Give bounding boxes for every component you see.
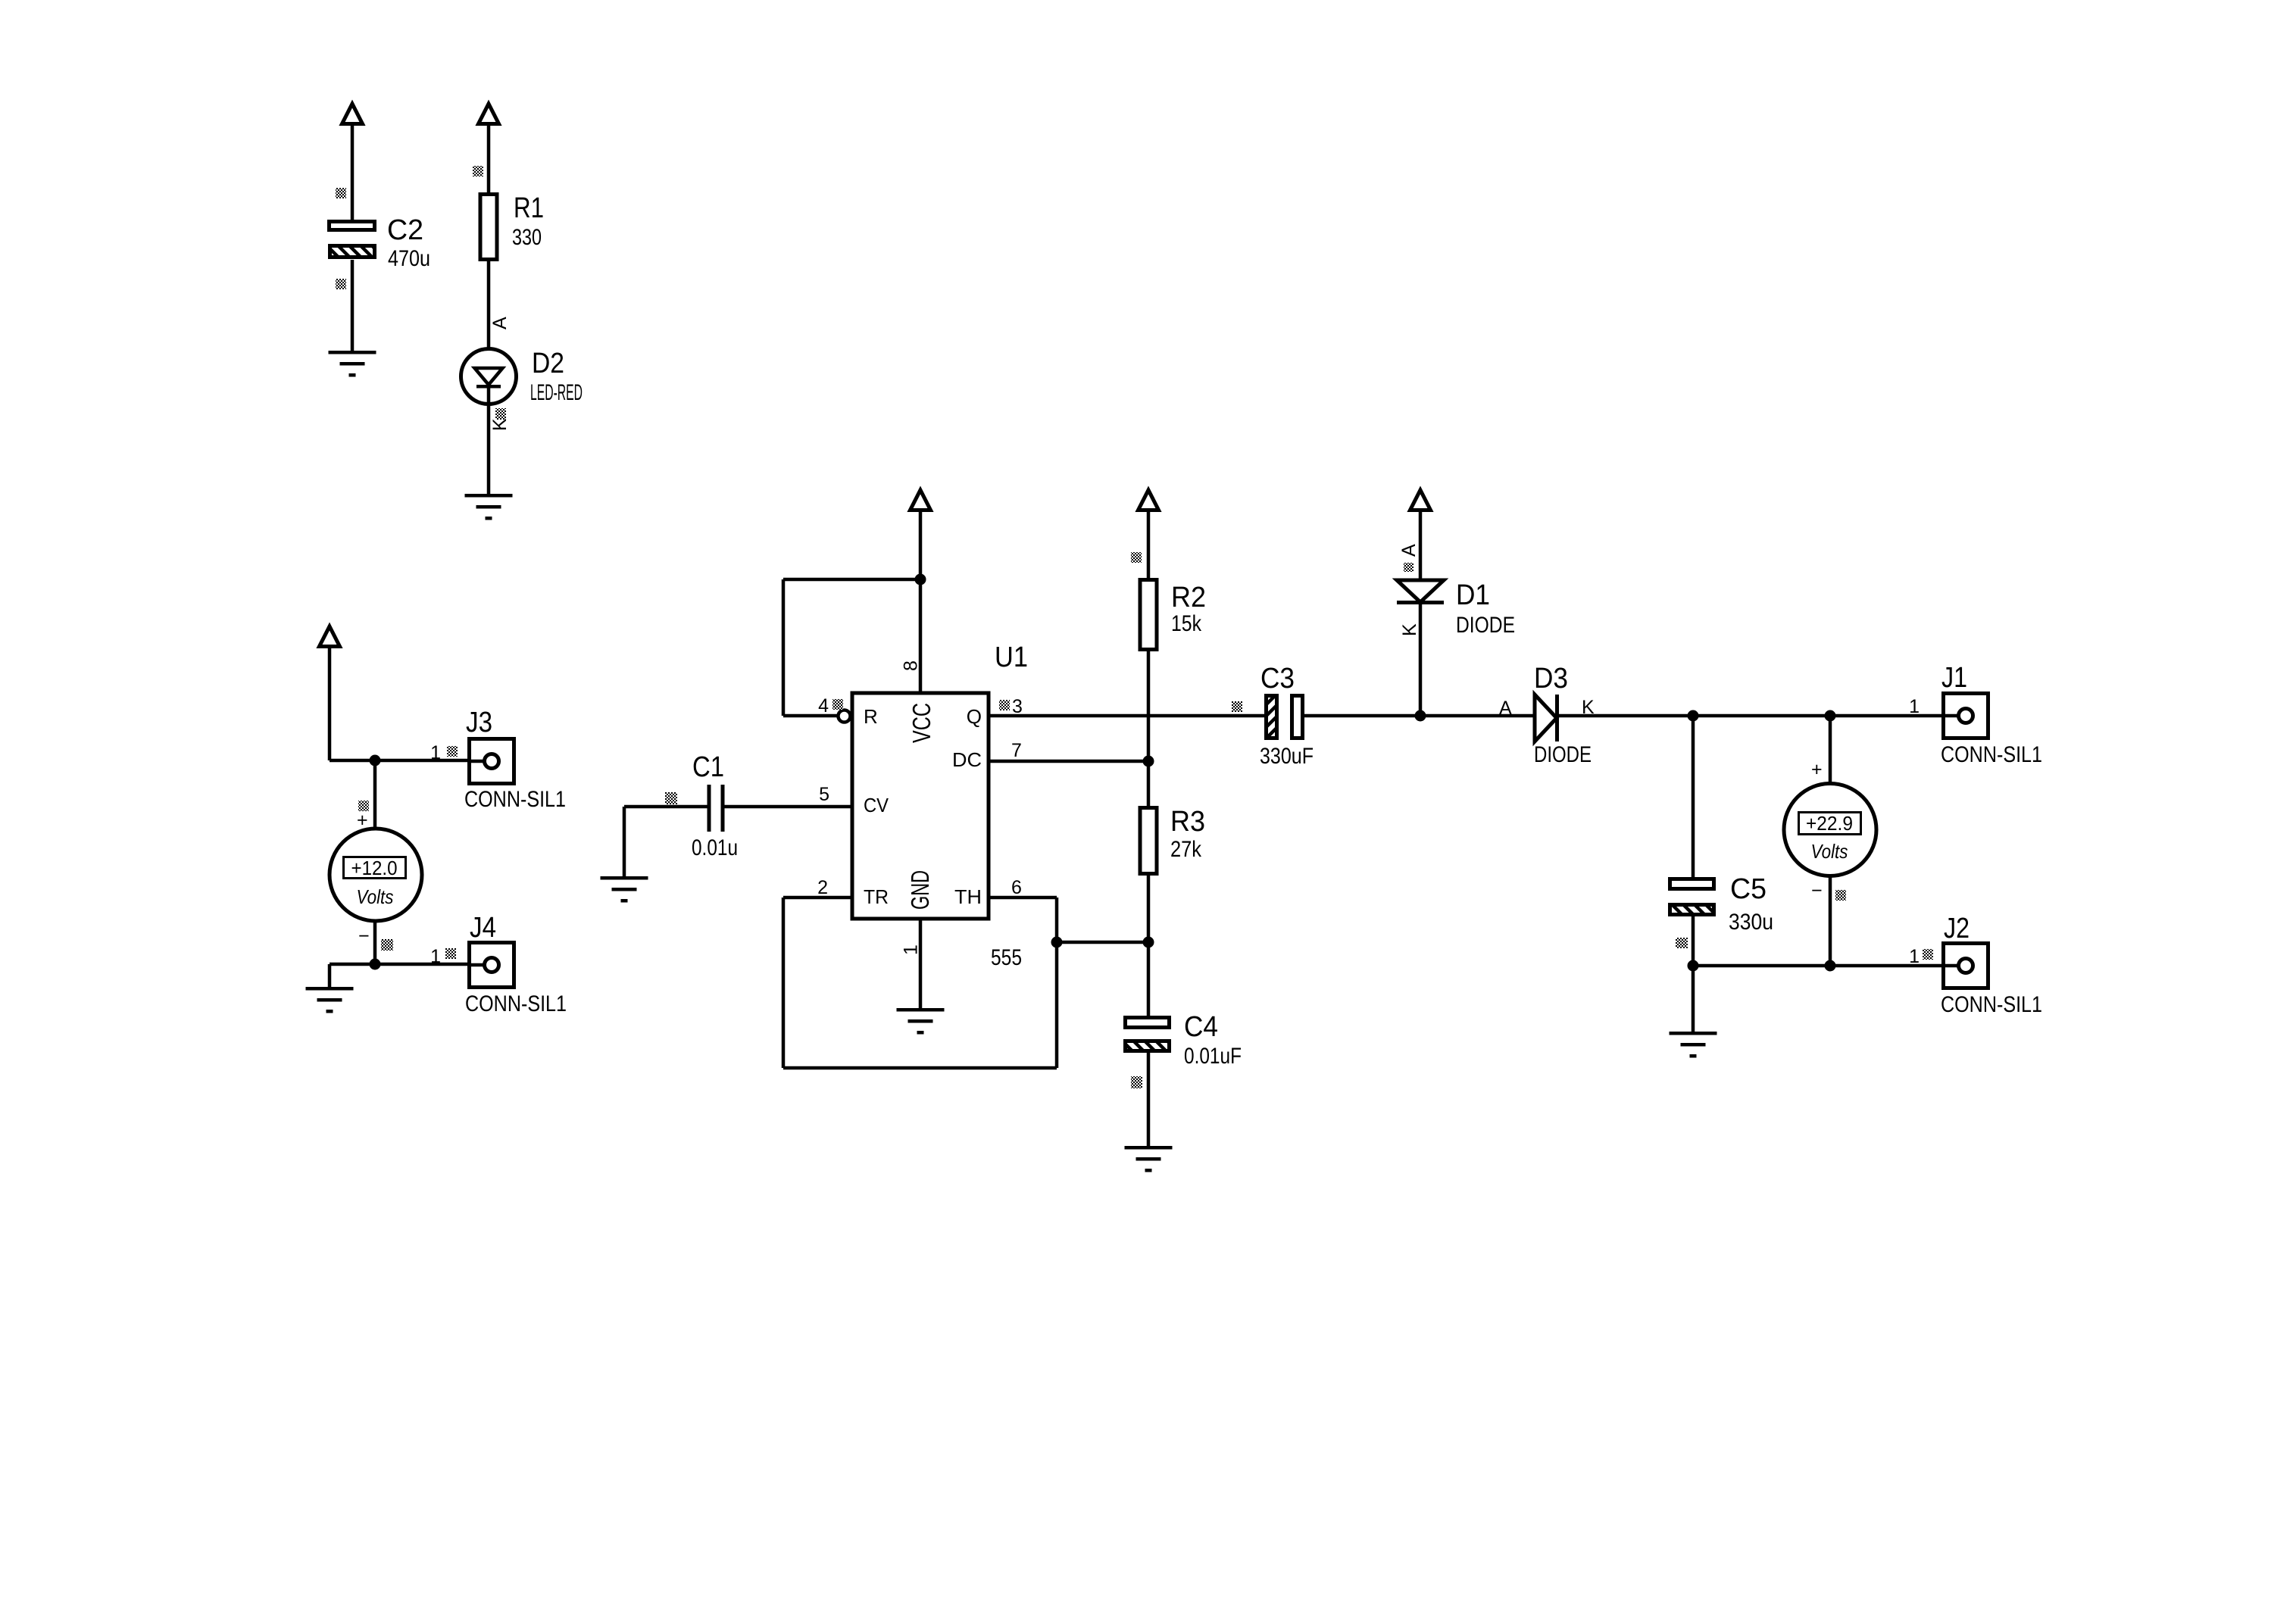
ground (D2): [465, 494, 513, 520]
marker C5 bottom: [1676, 938, 1688, 948]
svg-text:J2: J2: [1944, 913, 1970, 944]
svg-text:4: 4: [818, 695, 829, 716]
junction node D1/D3: [1415, 710, 1426, 722]
svg-text:D2: D2: [532, 348, 564, 379]
wire C1 left: [624, 805, 708, 809]
wire to C5: [1692, 716, 1695, 877]
svg-text:555: 555: [991, 945, 1022, 970]
LED D2: [461, 349, 517, 404]
svg-text:U1: U1: [995, 642, 1028, 673]
wire C5 to junction: [1692, 916, 1695, 966]
power symbol VCC (U1): [911, 490, 931, 510]
marker C4 bottom: [1131, 1076, 1142, 1088]
junction node TH/TR: [1051, 937, 1063, 948]
svg-text:R3: R3: [1170, 806, 1205, 838]
svg-text:J3: J3: [466, 707, 492, 738]
wire C3 to D1/D3: [1304, 714, 1535, 718]
svg-text:K: K: [1399, 623, 1420, 636]
svg-text:C3: C3: [1260, 663, 1295, 695]
resistor R3: [1140, 808, 1157, 874]
capacitor C2: [330, 222, 375, 230]
wire junction to voltmeter + terminal: [373, 760, 377, 829]
svg-text:GND: GND: [906, 870, 934, 910]
wire reset loop to pin 4: [783, 714, 838, 718]
ground (C4): [1125, 1146, 1173, 1172]
wire C5 junction to ground: [1692, 966, 1695, 1032]
wire TR pin 2: [783, 896, 852, 900]
svg-text:Volts: Volts: [1811, 840, 1848, 863]
marker J2 pin: [1923, 949, 1933, 960]
diode D1: [1397, 580, 1444, 604]
resistor R2: [1140, 580, 1157, 650]
svg-text:R1: R1: [514, 192, 544, 224]
wire bottom rail to J2: [1693, 964, 1957, 968]
svg-text:+12.0: +12.0: [351, 857, 398, 879]
svg-text:7: 7: [1011, 740, 1022, 761]
svg-text:J1: J1: [1941, 662, 1967, 694]
junction node DC/R2/R3: [1143, 756, 1154, 767]
svg-text:K: K: [489, 418, 511, 431]
svg-text:5: 5: [819, 784, 829, 805]
svg-text:CONN-SIL1: CONN-SIL1: [465, 991, 567, 1016]
wire DC pin 7: [989, 760, 1148, 763]
svg-text:CV: CV: [864, 794, 889, 816]
marker pin 4: [832, 699, 843, 710]
wire C4 to ground: [1147, 1053, 1151, 1146]
svg-text:TH: TH: [954, 885, 982, 908]
power symbol VCC (D1): [1410, 490, 1431, 510]
svg-text:DIODE: DIODE: [1456, 613, 1515, 638]
wire to voltmeter V2 +: [1829, 716, 1832, 783]
svg-text:DIODE: DIODE: [1534, 742, 1592, 767]
wire voltmeter - to junction: [373, 921, 377, 964]
svg-text:15k: 15k: [1171, 611, 1202, 636]
wire to J4: [330, 963, 483, 966]
junction node J3/V1+: [370, 755, 381, 766]
marker J4 pin: [445, 948, 456, 959]
svg-text:1: 1: [430, 742, 441, 763]
wire R2 to R3: [1147, 651, 1151, 806]
svg-text:CONN-SIL1: CONN-SIL1: [1941, 992, 2042, 1017]
resistor R1: [480, 195, 497, 260]
wire TR loop right up: [1055, 942, 1059, 1068]
svg-text:330uF: 330uF: [1260, 744, 1314, 769]
marker D2 cathode: [495, 408, 506, 420]
svg-text:+22.9: +22.9: [1806, 812, 1853, 835]
junction node V2 top: [1825, 710, 1836, 722]
marker C1: [665, 792, 677, 804]
wire D3 to J1: [1559, 714, 1957, 718]
svg-text:J4: J4: [470, 912, 496, 944]
marker J3 pin: [447, 746, 458, 757]
svg-text:0.01u: 0.01u: [692, 835, 738, 860]
svg-text:TR: TR: [864, 885, 889, 908]
marker C2 bottom: [336, 279, 346, 289]
junction node C5 top: [1688, 710, 1699, 722]
svg-text:1: 1: [430, 946, 441, 967]
svg-text:Q: Q: [967, 705, 982, 728]
capacitor C1: [708, 785, 725, 832]
svg-text:LED-RED: LED-RED: [530, 380, 583, 405]
wire D1 to output node: [1419, 604, 1423, 716]
svg-text:6: 6: [1011, 877, 1022, 898]
svg-text:D3: D3: [1534, 663, 1568, 695]
marker C3: [1232, 701, 1242, 712]
power symbol VCC (C2 branch): [342, 104, 363, 124]
wire TR loop left down: [782, 898, 786, 1068]
capacitor C4: [1126, 1018, 1170, 1028]
marker R1 top: [473, 166, 483, 176]
wire C1 down to ground: [623, 807, 626, 876]
wire TH down: [1055, 898, 1059, 942]
capacitor C5: [1670, 879, 1714, 889]
svg-text:D1: D1: [1456, 579, 1490, 611]
svg-text:1: 1: [1909, 696, 1920, 717]
wire TH junction to R3: [1057, 941, 1148, 944]
ground (C1): [601, 876, 648, 903]
op-amp U1 555 timer body: [852, 693, 989, 919]
junction node J4/V1-: [370, 959, 381, 970]
svg-text:C2: C2: [387, 214, 423, 246]
wire TR loop bottom: [783, 1066, 1057, 1070]
marker C2 top: [336, 188, 346, 198]
svg-text:1: 1: [901, 944, 922, 955]
marker V2 minus: [1835, 890, 1846, 901]
ground (U1): [897, 1008, 945, 1035]
wire TH pin 6: [989, 896, 1057, 900]
wire to ground (J4): [328, 964, 332, 987]
marker V1 minus: [381, 939, 393, 951]
svg-text:A: A: [1499, 698, 1512, 719]
svg-text:330: 330: [512, 225, 542, 250]
connector J3 CONN-SIL1: [467, 739, 514, 784]
wire V2 - to bottom rail: [1829, 876, 1832, 966]
svg-text:A: A: [1398, 544, 1420, 557]
svg-text:C1: C1: [692, 751, 724, 783]
marker V1 plus: [358, 801, 369, 811]
marker D1: [1404, 563, 1414, 572]
svg-text:CONN-SIL1: CONN-SIL1: [1941, 742, 2042, 767]
wire C2 to ground: [351, 260, 355, 351]
svg-text:−: −: [1811, 880, 1823, 901]
svg-text:2: 2: [817, 877, 828, 898]
svg-text:470u: 470u: [388, 246, 430, 271]
wire R1 to D2, pin A: [487, 261, 491, 369]
svg-text:C5: C5: [1730, 873, 1767, 905]
junction node VCC/reset loop: [915, 574, 926, 585]
junction node V2 bottom: [1825, 960, 1836, 972]
capacitor C3 (polarised): [1267, 696, 1277, 738]
svg-text:8: 8: [901, 660, 922, 671]
wire reset loop left: [782, 579, 786, 716]
svg-text:C4: C4: [1184, 1011, 1218, 1043]
svg-text:R2: R2: [1171, 582, 1206, 613]
power symbol VCC (J3 branch): [320, 626, 340, 647]
svg-text:R: R: [864, 705, 878, 728]
ground (C5): [1670, 1032, 1717, 1058]
ground (C2): [329, 351, 376, 377]
svg-text:27k: 27k: [1170, 837, 1202, 862]
inversion bubble pin 4 (R): [839, 710, 851, 723]
svg-text:DC: DC: [952, 748, 982, 771]
svg-text:0.01uF: 0.01uF: [1184, 1044, 1242, 1069]
junction node R3/C4: [1143, 937, 1154, 948]
wire Q output pin 3: [989, 714, 1264, 718]
svg-text:CONN-SIL1: CONN-SIL1: [464, 787, 566, 812]
svg-text:−: −: [358, 926, 370, 947]
wire C1 to CV pin 5: [724, 805, 852, 809]
svg-text:Volts: Volts: [357, 885, 394, 908]
wire GND pin 1: [919, 920, 923, 1008]
svg-text:A: A: [489, 317, 511, 329]
power symbol VCC (R1 branch): [479, 104, 499, 124]
marker pin 3: [999, 700, 1010, 710]
diode D3: [1535, 695, 1559, 741]
svg-text:+: +: [1811, 759, 1823, 780]
svg-text:VCC: VCC: [907, 703, 936, 743]
voltmeter V1 +12.0 Volts: [330, 829, 422, 921]
marker R2 top: [1131, 552, 1142, 563]
svg-text:330u: 330u: [1729, 910, 1773, 935]
junction node C5 bottom: [1688, 960, 1699, 972]
power symbol VCC (R2): [1139, 490, 1159, 510]
wire R3 to C4: [1147, 876, 1151, 1016]
connector J2 CONN-SIL1: [1941, 944, 1988, 988]
ground (J4): [306, 987, 354, 1013]
voltmeter V2 +22.9 Volts: [1784, 784, 1876, 876]
connector J1 CONN-SIL1: [1941, 694, 1988, 738]
wire to J3: [330, 759, 483, 763]
wire D2 to ground: [487, 386, 491, 494]
svg-text:1: 1: [1909, 946, 1920, 967]
wire reset loop top: [783, 578, 920, 582]
connector J4 CONN-SIL1: [467, 943, 514, 988]
